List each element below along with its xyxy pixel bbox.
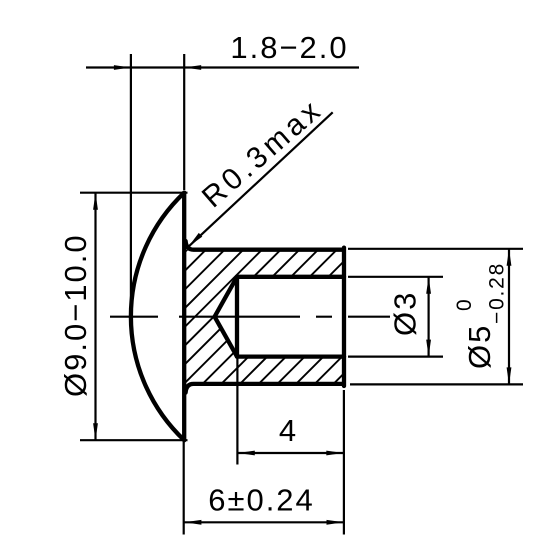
hole cone base line <box>235 277 239 357</box>
shared extension line at shank end <box>343 390 345 535</box>
head dome arc <box>131 193 184 441</box>
dim phi9.0-10.0 top arrow <box>93 193 98 210</box>
dim phi9.0-10.0 dimension line <box>94 193 96 441</box>
dim phi3 bottom extension line <box>348 356 443 358</box>
shank top edge with fillet R0.3 <box>186 241 342 250</box>
dim phi9.0-10.0 top extension line <box>80 192 188 194</box>
dim 6+-0.24 extension line at head back <box>183 442 185 535</box>
section hatching of shank <box>47 244 474 390</box>
svg-text:1.8−2.0: 1.8−2.0 <box>230 30 348 65</box>
dim 1.8-2.0 dimension line <box>86 66 359 68</box>
dim phi9.0-10.0 bottom arrow <box>93 423 98 440</box>
svg-text:4: 4 <box>279 413 298 448</box>
dim phi3 dimension line <box>428 277 430 357</box>
centerline axis segment 4 <box>348 316 390 318</box>
centerline axis segment 3 <box>316 316 332 318</box>
svg-text:Ø5: Ø5 <box>462 324 497 369</box>
dim 1.8-2.0 left arrow <box>114 65 131 70</box>
dim 4 dimension line <box>238 452 343 454</box>
dim phi5 top arrow <box>507 249 512 266</box>
dim 4 right arrow <box>326 451 343 456</box>
dim 1.8-2.0 extension line at head back <box>183 54 185 190</box>
dim phi5 dimension line <box>508 249 510 385</box>
dim 1.8-2.0 right arrow <box>184 65 201 70</box>
centerline axis segment 2 <box>179 316 300 318</box>
svg-text:Ø9.0−10.0: Ø9.0−10.0 <box>58 233 93 397</box>
hole drill cone upper flank <box>215 277 237 317</box>
dim phi3 top extension line <box>348 276 443 278</box>
dim 6+-0.24 left arrow <box>184 520 201 525</box>
dim 6+-0.24 right arrow <box>327 520 344 525</box>
dim 6+-0.24 dimension line <box>184 521 343 523</box>
dim phi5 bottom arrow <box>507 367 512 384</box>
dim phi3 top arrow <box>426 277 431 294</box>
dim phi5 top extension line <box>348 248 523 250</box>
shank bottom edge with fillet R0.3 <box>186 384 342 393</box>
dim 4 left arrow <box>238 451 255 456</box>
dim 1.8-2.0 extension line at dome apex <box>130 54 132 312</box>
hole bottom wall <box>237 354 344 358</box>
hole top wall <box>237 275 344 279</box>
svg-text:0: 0 <box>453 298 476 311</box>
centerline axis segment 1 <box>110 316 158 318</box>
svg-text:6±0.24: 6±0.24 <box>208 483 315 518</box>
svg-text:−0.28: −0.28 <box>486 262 509 324</box>
shank end face <box>342 248 346 386</box>
dim 4 extension line at cone base <box>236 357 238 465</box>
head back face <box>182 193 186 441</box>
leader arrow at fillet <box>188 233 202 247</box>
dim phi9.0-10.0 bottom extension line <box>80 439 188 441</box>
leader line R0.3max <box>188 112 332 247</box>
dim phi3 bottom arrow <box>426 340 431 357</box>
dim phi5 bottom extension line <box>350 383 523 385</box>
svg-text:Ø3: Ø3 <box>388 291 423 336</box>
hole drill cone lower flank <box>215 317 237 357</box>
